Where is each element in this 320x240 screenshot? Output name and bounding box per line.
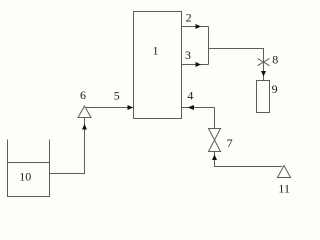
arrow into pump 6 [82, 124, 87, 130]
svg-text:4: 4 [187, 88, 193, 102]
vessel 9 [257, 81, 270, 113]
arrow stream 2 [196, 24, 202, 29]
wire stream 4 line [182, 107, 215, 109]
pump 6 (triangle) [78, 106, 91, 118]
svg-text:5: 5 [114, 89, 120, 103]
svg-text:1: 1 [153, 44, 159, 58]
tank 10 (open-top vessel) [8, 140, 50, 197]
wire vertical into valve 7 [214, 108, 216, 129]
arrow into vessel 9 [261, 71, 266, 77]
wire from tank to pump 6 [50, 118, 85, 174]
wire below valve 7 [215, 152, 283, 167]
wire stream 2 line [182, 26, 209, 28]
valve 7 (bowtie) [209, 129, 221, 152]
svg-text:8: 8 [272, 52, 278, 66]
wire takeoff to valve 8 [209, 49, 264, 81]
vessel 1 (main unit box) [134, 12, 182, 119]
arrow stream 5 [128, 105, 134, 110]
svg-text:9: 9 [272, 82, 278, 96]
wire stream 3 line [182, 64, 209, 66]
svg-text:11: 11 [278, 182, 290, 196]
pump 11 (triangle) [278, 166, 291, 178]
arrow stream 4 [188, 105, 195, 110]
svg-text:2: 2 [186, 11, 192, 25]
wire stream 5 line [86, 107, 133, 109]
svg-text:3: 3 [185, 48, 191, 62]
wire manifold vertical [208, 27, 210, 65]
svg-text:7: 7 [227, 136, 233, 150]
arrow into valve 7 [212, 155, 217, 161]
tank 10 liquid level [8, 162, 50, 164]
arrow stream 3 [196, 62, 202, 67]
valve 8 (X symbol) [258, 59, 270, 66]
svg-text:6: 6 [80, 88, 86, 102]
svg-text:10: 10 [19, 170, 31, 184]
